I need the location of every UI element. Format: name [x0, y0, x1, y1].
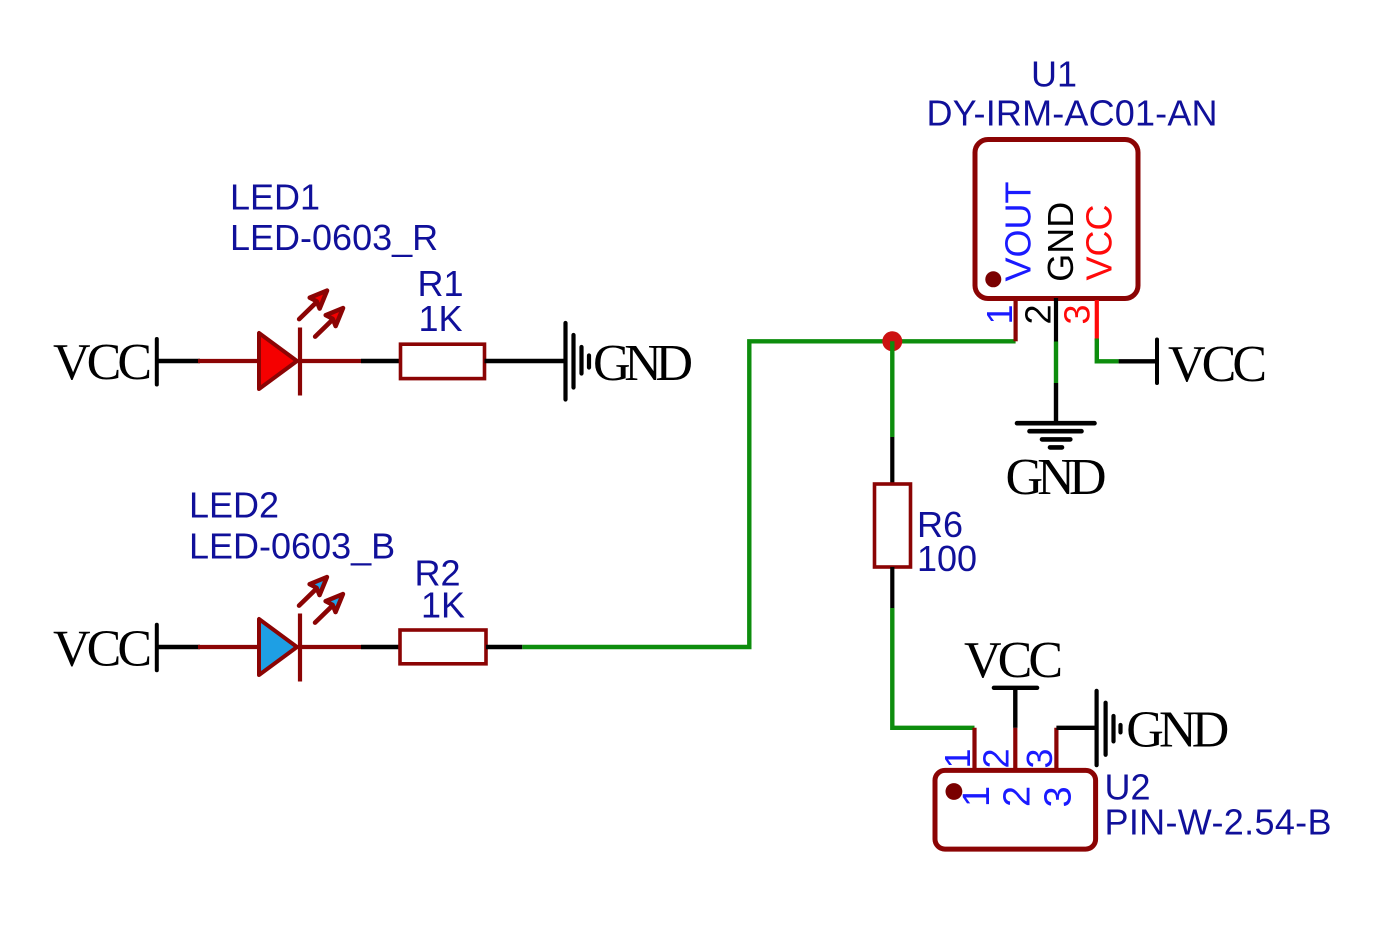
svg-text:VCC: VCC	[53, 621, 152, 678]
svg-text:LED1: LED1	[230, 177, 320, 218]
wire	[157, 359, 200, 363]
svg-text:VCC: VCC	[1168, 336, 1267, 393]
wire	[890, 341, 894, 437]
net port VCC (right of U1)	[1157, 336, 1267, 393]
net port GND (U2 pin3)	[1097, 691, 1230, 765]
svg-text:PIN-W-2.54-B: PIN-W-2.54-B	[1105, 802, 1332, 843]
pin 1 U2	[972, 728, 976, 771]
wire	[1097, 339, 1119, 362]
wire	[1056, 726, 1095, 730]
header U2 PIN-W-2.54-B	[935, 767, 1332, 850]
svg-text:VOUT: VOUT	[998, 181, 1039, 281]
svg-text:GND: GND	[1040, 202, 1081, 282]
resistor R1 1K	[401, 263, 485, 379]
svg-text:VCC: VCC	[964, 632, 1063, 689]
svg-text:1K: 1K	[419, 298, 463, 339]
wire	[361, 645, 401, 649]
wire	[1054, 383, 1058, 424]
svg-text:LED-0603_R: LED-0603_R	[230, 217, 438, 258]
LED LED2 (LED-0603_B)	[189, 485, 395, 682]
resistor R6 100	[875, 437, 978, 608]
pin 1 marker dot U2	[946, 783, 963, 800]
wire	[485, 359, 566, 363]
net port VCC (LED1 anode)	[53, 334, 157, 391]
svg-text:1: 1	[937, 748, 978, 768]
wire	[361, 359, 401, 363]
svg-text:2: 2	[1018, 304, 1059, 324]
svg-text:GND: GND	[593, 335, 693, 392]
svg-text:LED-0603_B: LED-0603_B	[189, 526, 395, 567]
svg-text:2: 2	[976, 748, 1017, 768]
svg-text:3: 3	[1038, 786, 1080, 807]
pin 3 U2	[1054, 728, 1058, 771]
svg-text:VCC: VCC	[1079, 204, 1120, 280]
svg-text:DY-IRM-AC01-AN: DY-IRM-AC01-AN	[927, 93, 1218, 134]
svg-text:3: 3	[1019, 748, 1060, 768]
net port VCC (U2 pin2)	[964, 632, 1063, 689]
pin 3 U1 (VCC)	[1095, 300, 1099, 341]
wire (net R2 to U1 VOUT)	[522, 341, 1015, 647]
pin 2 U2	[1013, 728, 1017, 771]
wire	[1013, 688, 1017, 728]
svg-text:2: 2	[997, 786, 1039, 807]
LED LED1 (LED-0603_R)	[198, 177, 438, 396]
resistor R2 1K	[400, 553, 486, 664]
wire	[157, 645, 200, 649]
svg-text:100: 100	[917, 538, 977, 579]
IC U1 DY-IRM-AC01-AN	[927, 54, 1218, 299]
svg-text:GND: GND	[1126, 702, 1229, 759]
wire	[892, 608, 974, 728]
svg-text:LED2: LED2	[189, 485, 279, 526]
wire	[1054, 342, 1058, 384]
svg-text:1: 1	[956, 786, 998, 807]
wire	[486, 645, 522, 649]
pin 1 marker dot U1	[985, 271, 1001, 287]
junction	[882, 331, 902, 351]
svg-text:3: 3	[1057, 304, 1098, 324]
pin 2 U1 (GND)	[1054, 298, 1058, 342]
net port VCC (LED2 anode)	[53, 621, 157, 678]
wire	[1119, 359, 1157, 363]
svg-text:1K: 1K	[421, 585, 465, 626]
ground GND (U1 pin2, earth symbol)	[1006, 423, 1107, 506]
svg-text:VCC: VCC	[53, 334, 152, 391]
svg-text:U1: U1	[1031, 54, 1077, 95]
pin 1 U1 (VOUT)	[1013, 300, 1017, 341]
svg-text:1: 1	[979, 304, 1020, 324]
net port GND (after R1)	[566, 323, 694, 400]
svg-text:GND: GND	[1006, 449, 1107, 506]
